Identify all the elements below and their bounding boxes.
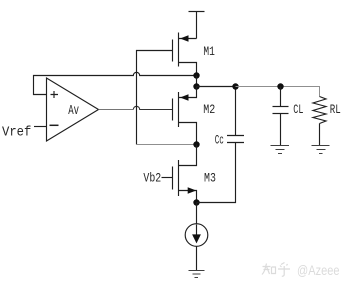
- junction dot Cc tap: [232, 83, 238, 89]
- svg-text:Av: Av: [68, 103, 79, 119]
- arrow source M1: [180, 35, 189, 41]
- arrow source M3: [188, 187, 197, 193]
- output node junction dot: [193, 83, 199, 89]
- node C junction dot (M3 source / Cc bottom / current source): [193, 199, 199, 205]
- wire Cc tap to CL tap and RL: [236, 87, 320, 97]
- arrow source M2: [180, 94, 189, 100]
- ground (below CL): [271, 146, 290, 154]
- svg-text:Vb2: Vb2: [143, 170, 161, 185]
- transistor M2 (PMOS): [173, 87, 197, 145]
- wire Cc top plate to output node: [235, 87, 237, 136]
- node B junction dot (M2 drain / M3 drain / M1 gate): [193, 141, 199, 147]
- svg-text:RL: RL: [330, 102, 341, 117]
- wire output node to Cc tap: [197, 86, 236, 88]
- current source arrowhead: [192, 234, 201, 243]
- svg-text:M2: M2: [203, 102, 215, 117]
- capacitor Cc: [227, 136, 244, 143]
- watermark zhihu @Azeee: [262, 263, 290, 277]
- current source I1: [185, 224, 208, 247]
- wire CL to ground: [280, 114, 282, 146]
- wire VDD to M1 source: [196, 12, 198, 39]
- svg-text:M3: M3: [204, 170, 216, 185]
- wire node A to output node: [196, 76, 198, 87]
- wire node C to current source: [196, 203, 198, 224]
- wire node B elbow to drain junction of M2/M3: [137, 144, 197, 146]
- wire node C to Cc bottom plate: [197, 143, 236, 203]
- capacitor CL: [273, 107, 289, 114]
- op-amp plus input pin mark: [51, 91, 59, 98]
- wire current source to ground: [196, 246, 198, 270]
- wire CL tap down to CL: [280, 87, 282, 107]
- ground (below current source): [189, 271, 205, 278]
- svg-text:CL: CL: [293, 102, 303, 117]
- op-amp U1 (Av): [47, 78, 99, 141]
- wire node B to M3 drain: [179, 145, 197, 166]
- wire feedback from node A to op-amp plus input (hops over gate bus): [34, 72, 197, 94]
- ground (below RL): [312, 146, 330, 154]
- resistor RL: [313, 97, 326, 124]
- wire gate bus: M1 gate down to node B: [137, 51, 173, 145]
- op-amp minus input pin mark: [50, 124, 59, 126]
- junction dot CL tap: [277, 83, 283, 89]
- wire op-amp output to gate of M2 (hops over gate bus): [99, 109, 134, 111]
- wire RL to ground: [319, 124, 321, 146]
- svg-text:M1: M1: [203, 44, 215, 59]
- transistor M1 (PMOS): [173, 33, 197, 76]
- svg-text:@Azeee: @Azeee: [297, 263, 340, 278]
- node A junction dot (M1 drain / feedback): [193, 72, 199, 78]
- wire Vref to op-amp minus input: [34, 126, 47, 128]
- VDD supply rail bar: [189, 11, 205, 13]
- wire Vb2 to M3 gate: [162, 177, 173, 179]
- svg-text:Cc: Cc: [215, 133, 224, 148]
- transistor M3 (NMOS): [173, 160, 197, 203]
- svg-text:Vref: Vref: [2, 125, 31, 141]
